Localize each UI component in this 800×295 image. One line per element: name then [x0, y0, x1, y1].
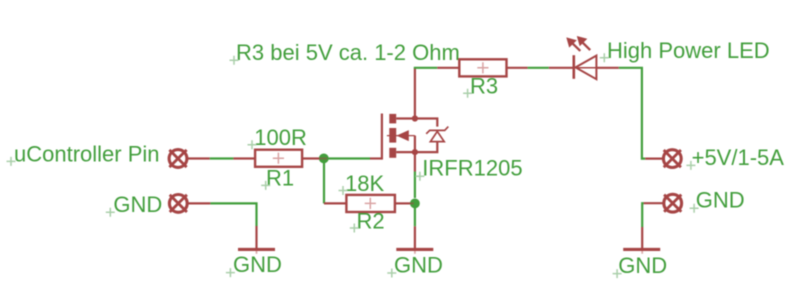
source horizontal	[396, 151, 415, 153]
net label GND right	[690, 187, 745, 212]
resistor R2	[346, 195, 395, 212]
part label IRFR1205	[415, 156, 522, 181]
ground label GND right bottom	[613, 253, 668, 278]
wire: net junction B down	[414, 208, 416, 226]
wire: GND symbol pin right	[641, 227, 643, 248]
emission arrow 2	[577, 36, 590, 50]
name label R3	[463, 73, 498, 98]
net label "uController Pin"	[7, 141, 160, 166]
wire: Q1 gate pin	[370, 157, 382, 159]
wire: R3 right pin	[507, 67, 528, 69]
svg-text:100R: 100R	[254, 125, 307, 150]
net label GND left	[106, 192, 162, 217]
ground symbol (middle)	[396, 248, 433, 251]
drain junction dot	[412, 115, 418, 121]
wire: net junction down to R2	[323, 159, 325, 204]
junction node B (R2 / source / GND)	[410, 199, 420, 209]
value label 18K	[339, 171, 385, 196]
wire: net GND pad to ground left	[210, 203, 256, 226]
wire: GND pad pin stub right	[644, 202, 665, 204]
wire: GND symbol pin left	[255, 226, 257, 248]
arrow to source connector	[414, 136, 416, 153]
LED D1 High Power LED	[566, 36, 596, 79]
svg-text:GND: GND	[233, 252, 282, 277]
svg-text:R2: R2	[357, 208, 385, 233]
body diode top connector	[415, 119, 437, 127]
junction node A	[319, 154, 329, 164]
ground symbol right	[623, 248, 660, 251]
wire: LED right pin (anode)	[596, 67, 618, 69]
svg-text:R1: R1	[266, 165, 294, 190]
svg-text:R3 bei 5V ca. 1-2 Ohm: R3 bei 5V ca. 1-2 Ohm	[236, 40, 460, 65]
part label High Power LED	[600, 38, 770, 63]
cathode bar	[572, 55, 575, 79]
channel bar top (drain)	[389, 114, 396, 124]
drain horizontal	[396, 117, 415, 119]
body diode cathode bar with zener hooks	[426, 127, 448, 134]
wire: R2 left pin	[324, 202, 346, 204]
triangle	[576, 56, 597, 80]
wire: R2 right pin	[395, 202, 410, 204]
svg-text:High Power LED: High Power LED	[607, 38, 770, 63]
svg-text:GND: GND	[618, 253, 667, 278]
wire: net from pad to R1	[210, 157, 234, 159]
ground label GND left bottom	[226, 252, 282, 277]
name label R2	[350, 208, 385, 233]
source junction dot	[412, 149, 418, 155]
ground symbol left	[238, 248, 275, 251]
source pin down	[414, 152, 416, 171]
svg-text:18K: 18K	[345, 171, 384, 196]
body diode bottom connector	[415, 142, 437, 153]
wire: net drain to R3	[414, 67, 438, 69]
pad X3 GND right	[664, 194, 682, 212]
pad X4 GND left	[169, 195, 187, 213]
net label +5V/1-5A	[686, 145, 784, 170]
svg-text:R3: R3	[470, 73, 498, 98]
svg-text:uController Pin: uController Pin	[14, 141, 160, 166]
pad X2 +5V	[663, 150, 681, 168]
wire: LED left pin (cathode)	[549, 67, 574, 69]
channel bar middle	[389, 128, 396, 143]
wire: net GND pad to ground right	[642, 203, 643, 227]
ground label GND (middle)	[387, 252, 443, 277]
drain pin up	[414, 68, 416, 119]
wire: pad X1 pin stub	[187, 157, 210, 159]
wire: net source to junction B	[414, 172, 416, 199]
wire: GND pad pin stub left	[187, 202, 211, 204]
svg-text:IRFR1205: IRFR1205	[422, 156, 522, 181]
wire: +5V pad pin	[645, 158, 664, 160]
channel bar bottom (source)	[389, 148, 396, 158]
wire: R3 left pin	[437, 67, 459, 69]
name label R1	[261, 165, 294, 190]
svg-text:+5V/1-5A: +5V/1-5A	[692, 145, 785, 170]
wire: net junction to gate	[324, 157, 370, 159]
bulk arrow	[396, 130, 408, 141]
svg-text:GND: GND	[696, 187, 745, 212]
transistor Q1 MOSFET IRFR1205	[382, 68, 448, 172]
svg-text:GND: GND	[394, 252, 443, 277]
wire: net LED to +5V rail	[619, 68, 645, 159]
comment label "R3 bei 5V ca. 1-2 Ohm"	[230, 40, 460, 65]
pad X1 uController Pin	[169, 150, 187, 168]
wire: GND symbol pin (middle)	[414, 226, 416, 248]
wire: net R3 to LED	[528, 67, 549, 69]
wire: R1 left pin	[233, 157, 255, 159]
svg-text:GND: GND	[113, 192, 162, 217]
emission arrow 1	[566, 37, 580, 51]
resistor R3	[459, 59, 506, 76]
bulk line	[387, 135, 415, 137]
resistor R1	[255, 150, 302, 167]
wire: R1 right pin	[302, 157, 319, 159]
wire through triangle	[574, 67, 597, 69]
gate vertical bar	[381, 114, 383, 160]
body diode triangle	[430, 131, 444, 141]
value label 100R	[248, 125, 307, 150]
